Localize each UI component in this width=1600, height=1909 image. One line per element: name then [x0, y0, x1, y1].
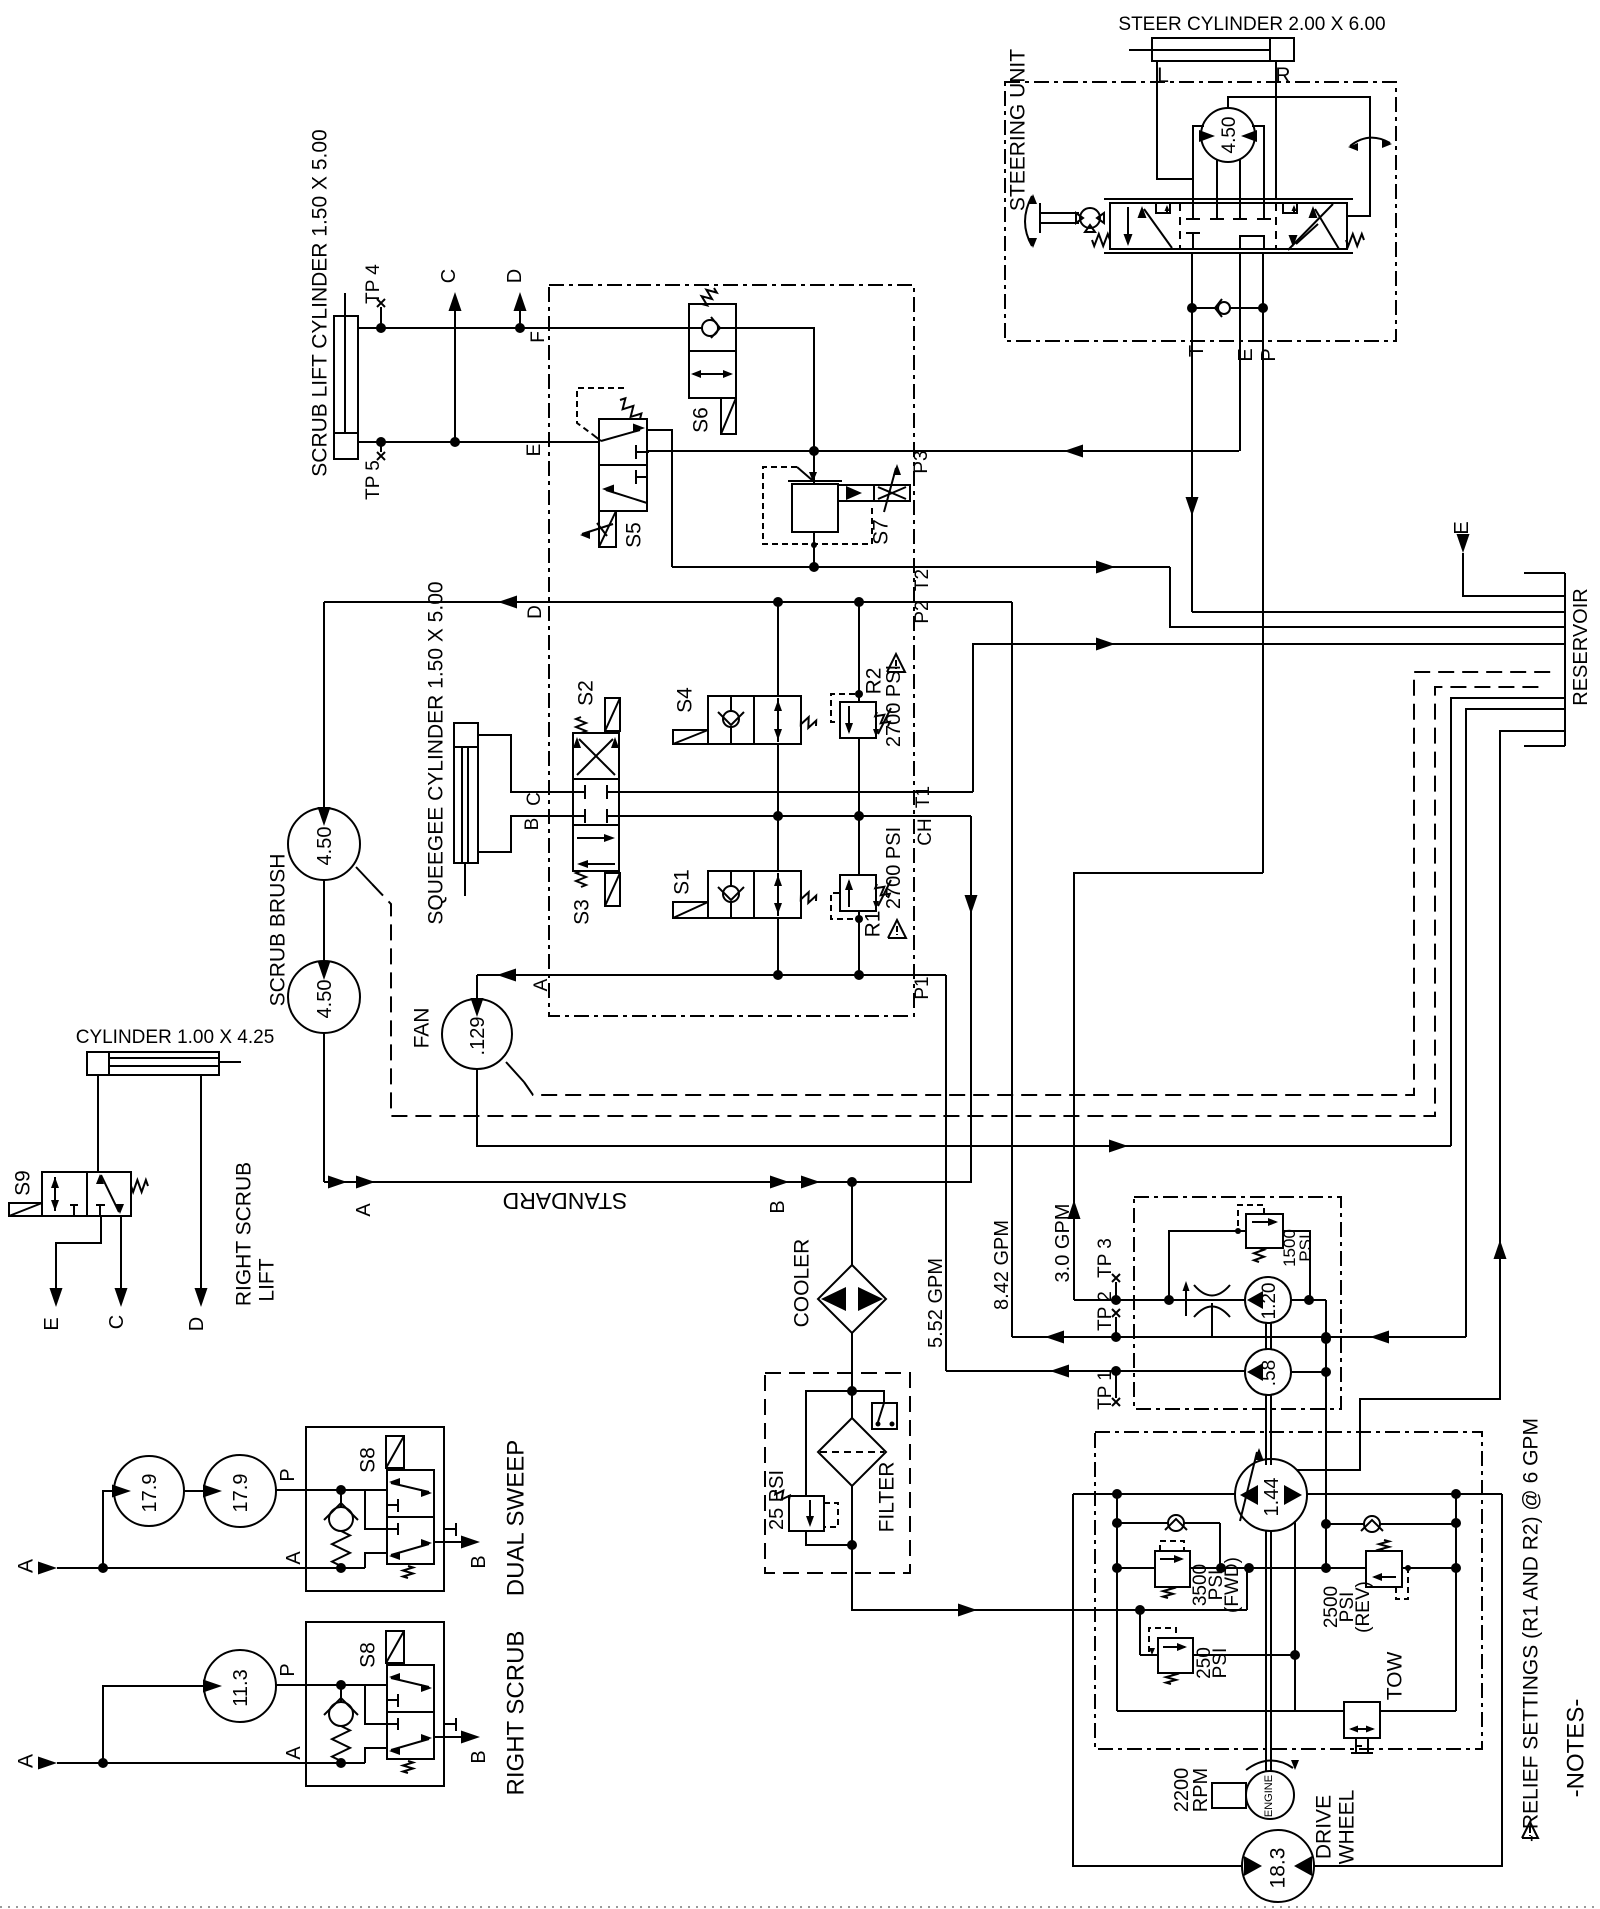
svg-text:B: B: [468, 1750, 490, 1763]
svg-text:1.44: 1.44: [1261, 1478, 1283, 1517]
label P2: [912, 600, 933, 623]
wire steering motor ports to valve: [1217, 160, 1240, 199]
svg-text:4.50: 4.50: [314, 980, 336, 1019]
label 3500 PSI (FWD): [1190, 1557, 1243, 1613]
wire E line: [357, 437, 599, 447]
valve S9 solenoid: [9, 1203, 42, 1216]
svg-text:COOLER: COOLER: [791, 1239, 814, 1328]
flow control orifice: [1183, 1281, 1231, 1337]
label 25 PSI: [766, 1470, 788, 1530]
svg-text:PSI: PSI: [1296, 1234, 1315, 1261]
label 5.52 GPM: [925, 1258, 947, 1348]
wire A feed RIGHT SCRUB: [38, 1686, 306, 1770]
wire S5 to T2: [647, 430, 672, 567]
wire S9 to C arrow: [115, 1216, 128, 1307]
relief R2 pilot dashed: [831, 690, 863, 722]
svg-text:C: C: [106, 1315, 128, 1329]
wire T1 to reservoir: [973, 638, 1565, 793]
label P (right scrub): [277, 1663, 299, 1676]
label 1500 PSI: [1280, 1229, 1315, 1267]
wire case drain to reservoir: [1297, 731, 1565, 1470]
steering valve left section arrows: [1124, 206, 1173, 248]
svg-text:TOW: TOW: [1384, 1652, 1407, 1701]
label TP 3: [1095, 1238, 1116, 1278]
svg-text:P: P: [277, 1468, 299, 1481]
label D (right scrub lift): [186, 1317, 208, 1331]
label 3.0 GPM: [1052, 1204, 1074, 1283]
inner option dashed border (standard group): [356, 687, 1546, 1116]
svg-text:D: D: [504, 269, 526, 283]
label T1: [913, 786, 934, 808]
svg-text:F: F: [528, 331, 549, 343]
drive motor 18.3: [1242, 1830, 1314, 1902]
label CH: [915, 818, 936, 845]
wire CH row: [619, 811, 971, 821]
valve S8 solenoid right scrub: [386, 1631, 404, 1665]
wire T B out dual sweep: [434, 1536, 480, 1549]
wire C branch: [449, 292, 462, 442]
svg-text:P3: P3: [911, 450, 932, 473]
svg-text:2700 PSI: 2700 PSI: [883, 827, 905, 909]
scrub motor (11.3): [203, 1650, 276, 1722]
svg-text:T2: T2: [912, 569, 933, 591]
svg-text:S9: S9: [12, 1170, 35, 1196]
relief 2500 pilot dashed: [1396, 1565, 1411, 1599]
wire drive loop left rail: [1112, 1494, 1122, 1711]
wire STANDARD line: [324, 1176, 857, 1189]
wire P2 riser: [1011, 602, 1013, 1337]
wire case line to tow: [1294, 1521, 1296, 1711]
label FAN: [411, 1008, 434, 1049]
svg-text:17.9: 17.9: [139, 1474, 161, 1513]
svg-text:S8: S8: [357, 1447, 380, 1473]
wire filter vertical: [847, 1391, 857, 1550]
svg-text:17.9: 17.9: [230, 1474, 252, 1513]
pump 1.20: [1245, 1277, 1291, 1323]
svg-text:2700 PSI: 2700 PSI: [883, 665, 905, 747]
tow manual actuator: [1351, 1738, 1373, 1753]
wire pump 1.20 right: [1291, 1295, 1326, 1305]
label P (dual sweep): [277, 1468, 299, 1481]
valve S1 solenoid: [673, 902, 708, 918]
wire steering motor yoke right: [1252, 126, 1264, 199]
relief 1500 pilot dashed: [1235, 1205, 1264, 1234]
svg-text:TP 2: TP 2: [1095, 1291, 1116, 1331]
svg-text:R2: R2: [863, 668, 886, 695]
wire CH down to cooler junction: [852, 816, 978, 1182]
fan motor .129: [442, 998, 512, 1069]
svg-text:TP 4: TP 4: [363, 264, 384, 304]
wire 1500 right: [1283, 1231, 1310, 1300]
pump group dash-dot enclosure box: [1134, 1197, 1341, 1409]
label S5: [623, 522, 646, 548]
wire .58 right: [1291, 1367, 1331, 1377]
wire tow line right: [1380, 1710, 1456, 1712]
label T2: [912, 569, 933, 591]
label C (right scrub lift): [106, 1315, 128, 1329]
wire drive loop right rail: [1451, 1494, 1461, 1711]
drive pump variable arrow: [1240, 1448, 1264, 1521]
svg-text:STEERING UNIT: STEERING UNIT: [1007, 49, 1030, 211]
svg-text:B: B: [767, 1200, 789, 1213]
label 2200 RPM: [1171, 1768, 1212, 1813]
label B (standard right): [767, 1200, 789, 1213]
wire D to scrub brush motor 1: [323, 602, 325, 808]
wire S1 to P1: [777, 918, 779, 975]
steering check valve between T and P: [1187, 299, 1268, 317]
valve S8 spring dual sweep: [403, 1566, 413, 1578]
label 8.42 GPM: [991, 1220, 1013, 1310]
label T (steering): [1186, 345, 1208, 357]
label S8 (right scrub): [357, 1642, 380, 1668]
relief valve 250 PSI: [1158, 1638, 1193, 1673]
svg-text:1.20: 1.20: [1259, 1283, 1280, 1320]
svg-text:ENGINE: ENGINE: [1263, 1775, 1275, 1817]
label S2: [575, 680, 598, 706]
steering valve small tabs: [1156, 203, 1297, 213]
wire squeegee cap to C: [478, 735, 573, 792]
svg-text:8.42 GPM: 8.42 GPM: [991, 1220, 1013, 1310]
label B (squeegee): [522, 818, 543, 831]
filter element: [818, 1418, 886, 1486]
wire steering T port: [1186, 253, 1199, 612]
wire A to fan: [476, 975, 478, 999]
wire P dual sweep: [276, 1485, 387, 1529]
svg-text:(FWD): (FWD): [1222, 1557, 1243, 1613]
valve S7 pilot dashed: [763, 467, 872, 544]
valve S2 S3 body: [573, 733, 619, 871]
wire scrub brush motor 2 to standard line: [323, 1033, 325, 1182]
label 250 PSI: [1194, 1647, 1231, 1679]
label R1: [862, 911, 885, 938]
svg-text:S3: S3: [571, 899, 594, 925]
svg-text:R1: R1: [862, 911, 885, 938]
wire S7 feed: [813, 451, 815, 484]
right scrub lift cylinder: [87, 1052, 241, 1075]
label A (dual sweep block): [283, 1551, 305, 1565]
label STEER CYLINDER 2.00 X 6.00: [1118, 14, 1385, 35]
svg-text:A: A: [283, 1551, 305, 1565]
label A (manifold port): [531, 978, 552, 991]
valve S9 spring: [131, 1180, 148, 1192]
svg-text:B: B: [468, 1555, 490, 1568]
wire S6 branch to P3: [736, 328, 814, 451]
svg-text:.129: .129: [467, 1017, 489, 1056]
wire P3 riser to steering E: [1238, 450, 1240, 452]
label P3: [911, 450, 932, 473]
outer option dashed border (fan group): [506, 672, 1556, 1095]
valve S5 spring: [620, 398, 641, 419]
node TP1: [1112, 1371, 1120, 1406]
svg-text:SQUEEGEE CYLINDER 1.50 X 5.00: SQUEEGEE CYLINDER 1.50 X 5.00: [425, 581, 448, 924]
filter pressure switch: [852, 1391, 897, 1429]
valve S4: [708, 696, 801, 744]
svg-text:RIGHT SCRUB: RIGHT SCRUB: [503, 1631, 530, 1796]
relief valve 3500 PSI FWD: [1155, 1551, 1190, 1587]
label RELIEF SETTINGS note: [1520, 1418, 1543, 1842]
filter bypass wire: [806, 1391, 852, 1545]
label RIGHT SCRUB LIFT: [233, 1162, 279, 1306]
label D (manifold port): [525, 605, 546, 619]
svg-text:B: B: [522, 818, 543, 831]
sweep motor 2 (17.9): [203, 1455, 276, 1527]
svg-text:SCRUB BRUSH: SCRUB BRUSH: [267, 854, 290, 1007]
wire T B out right scrub: [434, 1731, 480, 1744]
wire reservoir suction: [1466, 709, 1565, 1337]
label S4: [674, 687, 697, 713]
svg-text:S8: S8: [357, 1642, 380, 1668]
label S9: [12, 1170, 35, 1196]
wire R2 to CH: [858, 738, 860, 816]
label D (lift): [504, 269, 526, 283]
label 2700 PSI (R1): [883, 827, 905, 909]
svg-text:E: E: [524, 444, 545, 457]
scrub brush motor 1 (4.50): [288, 807, 360, 880]
wire charge gallery: [1117, 1563, 1456, 1573]
valve S5 solenoid: [580, 511, 616, 547]
wire tow line left: [1117, 1710, 1344, 1712]
check valve right scrub: [324, 1685, 358, 1763]
label F: [528, 331, 549, 343]
label STANDARD: [503, 1188, 628, 1214]
warning triangle (R2): [887, 654, 905, 672]
svg-text:P1: P1: [912, 976, 933, 999]
valve S2 S3 bottom box straight arrows: [577, 834, 615, 868]
wire 250 out: [1193, 1650, 1300, 1660]
valve S6 spring: [702, 288, 717, 305]
svg-text:TP 3: TP 3: [1095, 1238, 1116, 1278]
steering handwheel: [1040, 203, 1079, 233]
label S3: [571, 899, 594, 925]
node TP2: [1112, 1309, 1120, 1337]
wire drive loop A right leg: [1314, 1494, 1502, 1866]
wire S4 to CH: [777, 744, 779, 816]
svg-text:-NOTES-: -NOTES-: [1563, 1699, 1590, 1798]
label TP 4: [363, 264, 384, 304]
valve S5 pilot dashed: [577, 388, 624, 441]
check valve FWD: [1117, 1515, 1220, 1568]
svg-text:E: E: [1451, 521, 1473, 534]
label E (manifold port): [524, 444, 545, 457]
svg-text:E: E: [1235, 348, 1257, 361]
svg-text:R: R: [1275, 64, 1290, 87]
relief 3500 spring: [1163, 1587, 1173, 1598]
relief R1 spring: [873, 880, 891, 909]
label A (dual sweep): [15, 1559, 38, 1573]
svg-text:RIGHT SCRUB: RIGHT SCRUB: [233, 1162, 256, 1306]
svg-text:11.3: 11.3: [230, 1669, 252, 1706]
pump shaft: [1266, 1323, 1271, 1772]
svg-text:FILTER: FILTER: [876, 1462, 899, 1533]
wire squeegee rod to B: [478, 816, 573, 852]
svg-text:S2: S2: [575, 680, 598, 706]
label TOW: [1384, 1652, 1407, 1701]
label FILTER: [876, 1462, 899, 1533]
valve S8 dual sweep: [387, 1470, 434, 1564]
label P1: [912, 976, 933, 999]
label A (right scrub block): [283, 1746, 305, 1760]
label SCRUB LIFT CYLINDER 1.50 X 5.00: [309, 129, 332, 476]
wire A P1 line: [477, 969, 946, 982]
wire T2 line: [672, 561, 1170, 574]
label COOLER: [791, 1239, 814, 1328]
page border dotted: [0, 1906, 1600, 1908]
svg-text:25 PSI: 25 PSI: [766, 1470, 788, 1530]
valve S1 spring: [801, 892, 816, 903]
wire A feed DUAL SWEEP: [38, 1491, 306, 1575]
relief valve 1500 PSI: [1246, 1214, 1283, 1248]
svg-text:P: P: [277, 1663, 299, 1676]
steering valve right section arrows: [1288, 204, 1339, 250]
manifold dash-dot enclosure box: [549, 285, 914, 1016]
wire cooler feed: [851, 1182, 853, 1265]
wire T1 row: [619, 791, 973, 793]
wire cooler to filter: [851, 1333, 853, 1391]
valve S8 solenoid dual sweep: [386, 1436, 404, 1470]
steering valve spring right: [1346, 234, 1364, 246]
wire steer cylinder L to steering valve: [1157, 62, 1193, 199]
port T plug (dual sweep): [444, 1523, 456, 1536]
svg-text:18.3: 18.3: [1267, 1848, 1290, 1889]
valve S4 solenoid: [673, 730, 708, 744]
wire D branch: [514, 292, 527, 328]
wire steering motor yoke left: [1193, 126, 1204, 199]
wire S7 to T2: [811, 532, 817, 567]
svg-text:A: A: [15, 1559, 38, 1573]
svg-text:LIFT: LIFT: [256, 1258, 279, 1301]
svg-text:A: A: [15, 1754, 38, 1768]
label L: [1157, 64, 1169, 87]
relief valve R2: [840, 702, 876, 738]
label RESERVOIR: [1570, 588, 1592, 705]
label S8 (dual sweep): [357, 1447, 380, 1473]
wire between sweep motors: [184, 1490, 204, 1492]
svg-text:FAN: FAN: [411, 1008, 434, 1049]
sweep motor 1 (17.9): [112, 1456, 184, 1526]
valve S2 solenoid: [605, 698, 620, 733]
wire P3 line: [647, 445, 1239, 458]
svg-text:RESERVOIR: RESERVOIR: [1570, 588, 1592, 705]
svg-text:4.50: 4.50: [314, 827, 336, 866]
relief 3500 pilot dashed: [1160, 1541, 1184, 1551]
svg-text:C: C: [438, 269, 460, 283]
wire P2 to S4: [777, 602, 779, 696]
check valve dual sweep: [324, 1490, 358, 1568]
cooler: [818, 1265, 886, 1333]
valve S2 spring: [576, 717, 586, 733]
label B (right scrub): [468, 1750, 490, 1763]
valve S2 S3 top box crossed arrows: [573, 737, 619, 775]
valve S9: [42, 1172, 131, 1216]
steering rotate arrow left: [1025, 194, 1037, 248]
wire P2 to R2: [858, 602, 860, 702]
svg-text:5.52 GPM: 5.52 GPM: [925, 1258, 947, 1348]
wire CH to R1: [858, 816, 860, 875]
wire A inside block right scrub: [306, 1748, 387, 1768]
label E (steering): [1235, 348, 1257, 361]
valve block outer box DUAL SWEEP: [306, 1427, 444, 1591]
svg-text:S6: S6: [690, 407, 713, 433]
wire pump discharge line: [1074, 1295, 1245, 1305]
svg-text:SCRUB LIFT CYLINDER 1.50 X 5.0: SCRUB LIFT CYLINDER 1.50 X 5.00: [309, 129, 332, 476]
wire P1 riser 5.52 GPM: [945, 975, 947, 1371]
wire 3.0 GPM line to steering P: [1068, 873, 1264, 1300]
wire cylinder cap to S9: [97, 1075, 99, 1172]
wire steering E port: [1239, 253, 1241, 451]
label TP 5: [363, 460, 384, 500]
engine rotation arrow: [1246, 1760, 1299, 1770]
steering hand pump symbol: [1076, 208, 1104, 232]
svg-text:TP 1: TP 1: [1095, 1370, 1116, 1410]
wire .58 suction: [946, 1365, 1245, 1378]
steer cylinder: [1129, 38, 1294, 61]
svg-text:A: A: [283, 1746, 305, 1760]
label DUAL SWEEP: [503, 1440, 530, 1596]
valve S1: [708, 871, 801, 918]
svg-text:4.50: 4.50: [1219, 117, 1240, 154]
relief 2500 spring: [1379, 1540, 1389, 1551]
steering valve spring left: [1092, 234, 1110, 246]
wire fan return riser to reservoir: [1451, 698, 1565, 1146]
svg-text:S5: S5: [623, 522, 646, 548]
node TP5: [377, 442, 385, 460]
squeegee cylinder: [454, 723, 478, 896]
node TP4: [377, 299, 385, 328]
svg-text:S1: S1: [671, 869, 694, 895]
valve S8 right scrub: [387, 1665, 434, 1759]
port T plug (right scrub): [444, 1718, 456, 1731]
steering motor 4.50: [1199, 108, 1257, 162]
wire S9 to E arrow: [50, 1216, 102, 1307]
steering valve center ports: [1186, 199, 1271, 249]
scrub lift cylinder: [334, 293, 358, 459]
wire drive loop A: [1073, 1489, 1502, 1499]
svg-text:C: C: [524, 792, 545, 806]
valve S6 solenoid: [721, 398, 736, 434]
label TP 2: [1095, 1291, 1116, 1331]
wire charge gallery riser: [1321, 1300, 1331, 1568]
svg-text:P2: P2: [912, 600, 933, 623]
svg-text:A: A: [353, 1203, 375, 1217]
svg-text:WHEEL: WHEEL: [1336, 1790, 1359, 1865]
wire P2 D line: [324, 596, 1012, 609]
label STEERING UNIT: [1007, 49, 1030, 211]
svg-text:T1: T1: [913, 786, 934, 808]
wire 250 branch: [1140, 1610, 1158, 1655]
wire steering T to reservoir: [1192, 611, 1565, 613]
valve S6: [689, 304, 736, 398]
label TP 1: [1095, 1370, 1116, 1410]
wire CH to S1: [777, 816, 779, 871]
wire fan return: [477, 1069, 1451, 1153]
relief R1 pilot dashed: [831, 893, 863, 923]
steering rotate arrow right: [1348, 138, 1392, 151]
drive system dash-dot enclosure box: [1095, 1432, 1482, 1749]
filter bypass relief 25 PSI: [789, 1496, 824, 1531]
label SQUEEGEE CYLINDER 1.50 X 5.00: [425, 581, 448, 924]
label RIGHT SCRUB: [503, 1631, 530, 1796]
wire 1500 left: [1169, 1231, 1246, 1300]
wire F line: [357, 323, 689, 333]
wire R1 to P1: [858, 911, 860, 975]
svg-text:STEER CYLINDER 2.00 X 6.00: STEER CYLINDER 2.00 X 6.00: [1118, 14, 1385, 35]
relief valve 2500 PSI REV: [1366, 1551, 1402, 1587]
wire between scrub brush motors: [323, 880, 325, 962]
filter dashed enclosure: [765, 1373, 910, 1573]
drive pump 1.44: [1235, 1459, 1307, 1531]
svg-text:CH: CH: [915, 818, 936, 845]
label 2700 PSI (R2): [883, 665, 905, 747]
